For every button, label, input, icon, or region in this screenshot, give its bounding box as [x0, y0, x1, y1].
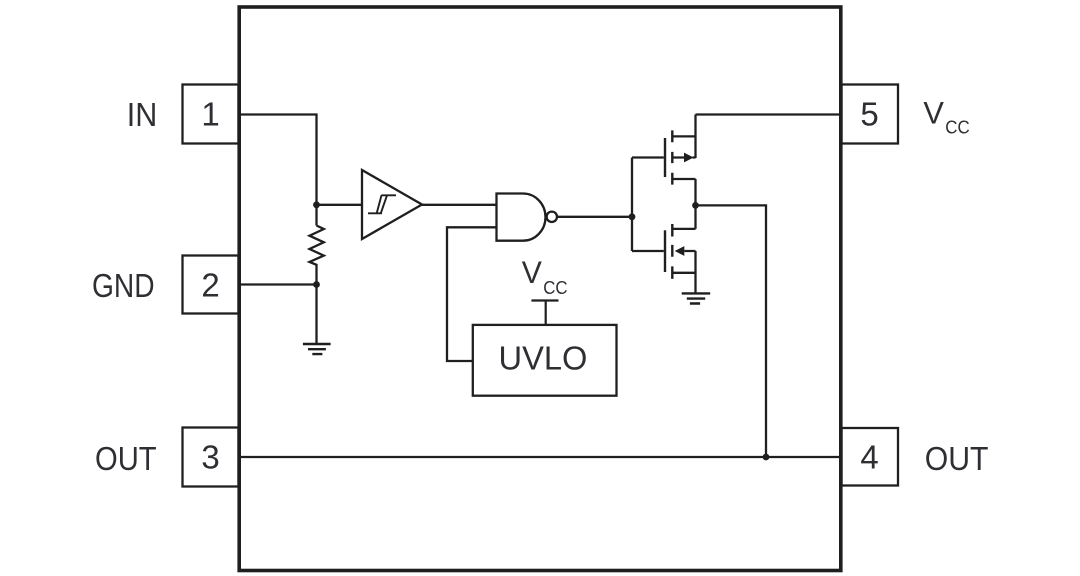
svg-text:OUT: OUT [925, 440, 989, 477]
svg-text:CC: CC [543, 278, 567, 298]
svg-text:3: 3 [201, 439, 219, 476]
svg-text:CC: CC [945, 117, 969, 137]
svg-text:4: 4 [860, 439, 878, 476]
svg-text:V: V [522, 254, 542, 290]
svg-text:2: 2 [201, 266, 219, 303]
svg-text:IN: IN [127, 96, 158, 133]
svg-text:OUT: OUT [95, 440, 157, 477]
svg-text:V: V [923, 94, 944, 130]
svg-text:GND: GND [92, 267, 155, 304]
svg-text:1: 1 [201, 95, 219, 132]
svg-text:5: 5 [860, 95, 878, 132]
svg-text:UVLO: UVLO [499, 339, 588, 376]
